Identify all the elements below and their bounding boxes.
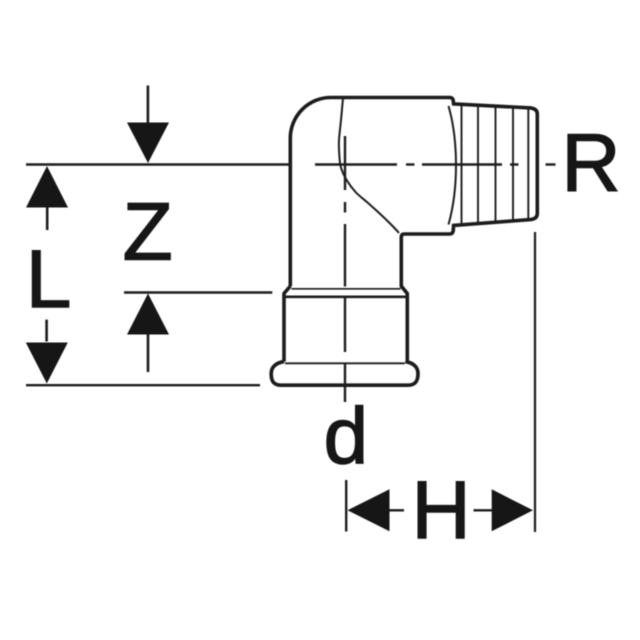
bead interior line y=363.3 [285, 362, 405, 364]
socket bead (press flange) [271, 362, 418, 386]
wire: horizontal centerline / top dimension line y=164.5 [26, 163, 556, 165]
svg-text:R: R [561, 118, 620, 209]
bend interior curve (thin) [339, 98, 399, 233]
arrow up (L top) [26, 166, 68, 208]
thread crest lines [462, 104, 529, 225]
wire: H left extension tick x=346.2 [345, 480, 347, 532]
arrow left (H) [348, 489, 390, 531]
wire: L top up-arrow tail x=47.2 [46, 208, 49, 231]
arrow right (H) [492, 489, 533, 531]
wire: H right extension line x=535 [534, 232, 536, 532]
svg-text:d: d [324, 392, 369, 481]
fitting body outline (elbow adapter) [271, 98, 537, 386]
wire: Z dimension line y=292.5 [124, 291, 272, 293]
svg-text:L: L [26, 234, 72, 325]
wire: H dimension tails y=510.3 [390, 509, 405, 511]
svg-text:H: H [411, 465, 470, 556]
wire: L bottom down-arrow tail x=46.6 [45, 320, 48, 342]
socket band line y=296.8 [284, 295, 408, 298]
arrow up (Z bottom) [127, 294, 169, 335]
wire: vertical centerline of bottom port x=345 [344, 136, 346, 402]
wire: L bottom dimension line y=385.2 [26, 384, 260, 386]
arrow down (L bottom) [26, 343, 68, 384]
wire: top down-arrow tail x=147.9 [147, 86, 150, 124]
thread transition curve [449, 106, 457, 225]
wire: Z bottom up-arrow tail x=148 [147, 334, 150, 372]
arrow down (top, at Z/R line) [127, 123, 169, 164]
arrowheads [26, 123, 533, 532]
svg-text:Z: Z [123, 186, 173, 277]
socket rim line (thin) y=288.8 [292, 288, 401, 290]
